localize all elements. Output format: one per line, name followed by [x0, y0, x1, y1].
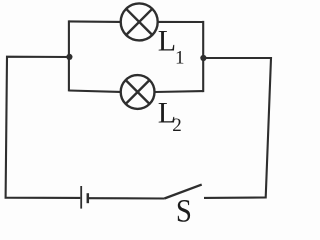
node A (left junction dot)	[66, 54, 72, 60]
wire: branch 1 left segment	[69, 20, 120, 23]
wire: branch 1 right segment	[158, 21, 203, 23]
node B (right junction dot)	[200, 55, 206, 61]
wire: parallel-section left vertical (branch split)	[68, 20, 70, 91]
wire: right feed from node B to outer-loop right side, down to bottom-right corner	[203, 58, 271, 198]
battery: negative plate (short thick)	[87, 193, 90, 203]
wire: battery to switch left contact	[89, 197, 164, 199]
wire: branch 2 left segment	[69, 91, 120, 92]
svg-text:S: S	[176, 194, 192, 224]
battery: positive plate (long thin)	[80, 186, 82, 209]
wire: branch 2 right segment	[155, 90, 203, 93]
wire: parallel-section right vertical (branch merge)	[202, 21, 204, 92]
label L2	[158, 96, 182, 136]
svg-text:1: 1	[175, 47, 185, 68]
wire: left feed from node A to outer-loop left side, down and along bottom to battery	[6, 57, 81, 198]
label L1	[158, 24, 185, 68]
svg-text:L: L	[158, 24, 176, 57]
lamp L2	[121, 75, 155, 109]
svg-text:2: 2	[172, 115, 182, 136]
switch S blade (open)	[164, 185, 201, 199]
lamp L1	[121, 3, 158, 40]
